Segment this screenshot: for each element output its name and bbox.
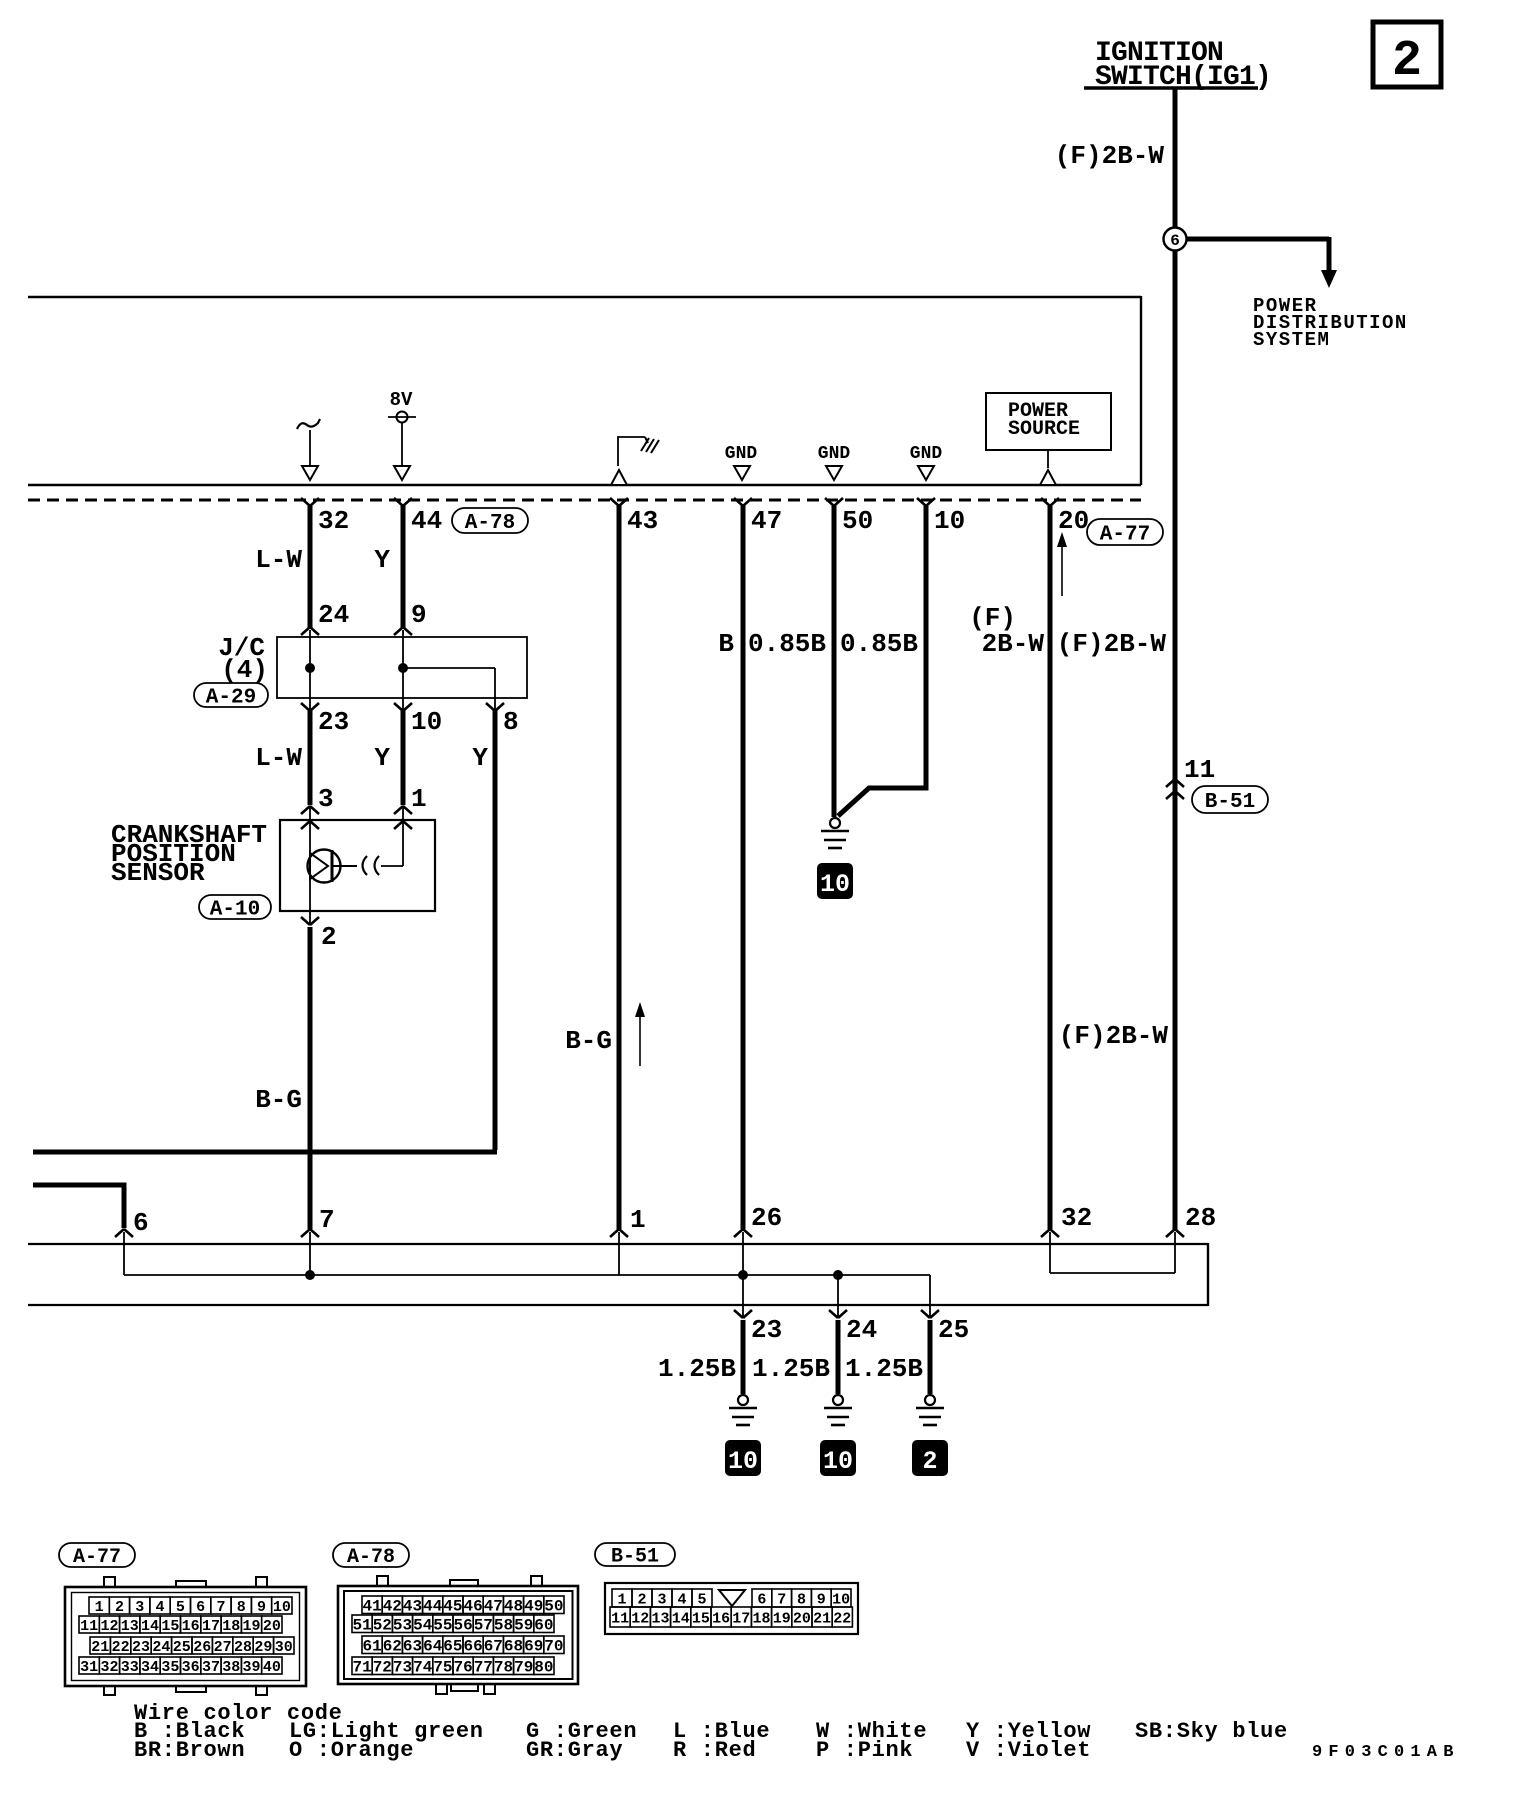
svg-text:30: 30 [275,1639,293,1656]
svg-text:SB:Sky blue: SB:Sky blue [1135,1719,1288,1744]
svg-text:7: 7 [216,1599,225,1616]
ecu connector dashed line [28,499,1141,502]
wire ignition trunk [1173,250,1178,1230]
connector pinout B-51 [595,1543,858,1634]
svg-text:A-78: A-78 [347,1546,395,1569]
svg-text:11: 11 [80,1618,98,1635]
svg-text:35: 35 [161,1659,179,1676]
label B-G mid [565,1026,612,1056]
svg-text:65: 65 [443,1638,462,1656]
svg-text:24: 24 [152,1639,170,1656]
svg-text:B-G: B-G [565,1026,612,1056]
svg-text:63: 63 [403,1638,422,1656]
node 6 circle [1164,228,1187,251]
wire B pin47 trunk [718,504,743,1229]
svg-text:77: 77 [474,1659,493,1677]
svg-text:0.85B: 0.85B [748,629,826,659]
connector pinout A-77 [59,1543,306,1695]
sensor pin3 chevrons [301,784,334,829]
svg-text:5: 5 [697,1591,706,1608]
svg-text:GND: GND [725,444,758,464]
crankshaft position sensor box [280,820,435,911]
svg-text:7: 7 [319,1205,335,1235]
ground symbol 23 [729,1395,757,1425]
svg-text:23: 23 [318,707,349,737]
wire pin8 horizontal to left [33,1150,497,1155]
svg-text:68: 68 [504,1638,523,1656]
svg-text:10: 10 [823,1447,853,1476]
svg-text:GR:Gray: GR:Gray [526,1738,623,1763]
wire to ground 24 [836,1320,841,1394]
wire to ground 23 [741,1320,746,1394]
svg-text:36: 36 [182,1659,200,1676]
wire (F)2B-W pin20 trunk [969,504,1050,1229]
svg-text:1: 1 [95,1599,104,1616]
ground symbol mid [821,818,849,848]
jc internal wire left [305,630,315,698]
svg-text:L-W: L-W [255,545,302,575]
svg-text:(F)2B-W: (F)2B-W [1055,141,1165,171]
svg-text:BR:Brown: BR:Brown [134,1738,245,1763]
wire 0.85B pin10 [838,504,926,816]
wire color code legend [134,1701,1288,1763]
svg-text:2B-W: 2B-W [982,629,1045,659]
strip pin7 [301,1205,335,1280]
wire Y pin8 down [472,709,495,1150]
ground ref 10 b [821,1441,855,1476]
svg-text:60: 60 [534,1617,553,1635]
ecu internal switch symbol pin32 [297,419,320,480]
svg-text:16: 16 [712,1610,730,1627]
svg-text:19: 19 [773,1610,791,1627]
svg-text:5: 5 [176,1599,185,1616]
svg-text:10: 10 [934,506,965,536]
jc pin24 chevron [301,600,349,635]
strip pin25 [921,1305,969,1345]
svg-text:8V: 8V [390,389,413,411]
ignition switch label [1084,38,1271,93]
svg-text:8: 8 [237,1599,246,1616]
svg-text:Y: Y [374,743,390,773]
svg-text:15: 15 [692,1610,710,1627]
ecu GND pin10 [910,444,943,480]
svg-text:16: 16 [182,1618,200,1635]
jc pin23 chevron [301,698,349,737]
wire branch to power distribution [1186,237,1337,288]
svg-text:56: 56 [453,1617,472,1635]
svg-text:A-29: A-29 [206,687,256,710]
ecu internal 8V source pin44 [388,389,416,480]
svg-text:B-51: B-51 [611,1546,659,1569]
svg-text:41: 41 [362,1598,381,1616]
svg-text:51: 51 [352,1617,371,1635]
svg-text:6: 6 [133,1208,149,1238]
svg-text:55: 55 [433,1617,452,1635]
ground ref 10 a [726,1441,760,1476]
wire L-W jc to sensor [255,709,310,805]
svg-text:B: B [718,629,734,659]
svg-text:9: 9 [817,1591,826,1608]
svg-text:43: 43 [627,506,658,536]
label (F)2B-W lower [1059,1021,1169,1051]
svg-text:47: 47 [484,1598,503,1616]
svg-text:24: 24 [318,600,349,630]
svg-text:SYSTEM: SYSTEM [1253,329,1330,351]
wire Y jc to sensor [374,709,403,805]
svg-text:22: 22 [833,1610,851,1627]
ecu pin 44 chevron [394,498,442,536]
svg-text:69: 69 [524,1638,543,1656]
svg-text:GND: GND [818,444,851,464]
svg-text:6: 6 [196,1599,205,1616]
wire into pin6 [33,1185,124,1228]
label (F)2B-W top [1055,141,1165,171]
svg-text:64: 64 [423,1638,443,1656]
svg-text:32: 32 [100,1659,118,1676]
ecu pin 10 chevron [917,498,965,536]
ecu internal chassis ground pin43 [611,437,659,485]
svg-text:34: 34 [141,1659,159,1676]
svg-text:40: 40 [263,1659,281,1676]
svg-text:31: 31 [80,1659,98,1676]
svg-text:61: 61 [362,1638,381,1656]
svg-text:B-G: B-G [255,1085,302,1115]
svg-text:1.25B: 1.25B [752,1354,830,1384]
jc internal wire right [398,630,495,698]
sensor pin1 chevrons [394,784,427,829]
svg-text:2: 2 [321,922,337,952]
sensor pickup coil symbol [308,806,404,911]
svg-text:15: 15 [161,1618,179,1635]
svg-text:1.25B: 1.25B [845,1354,923,1384]
svg-text:26: 26 [193,1639,211,1656]
svg-text:28: 28 [234,1639,252,1656]
svg-text:2: 2 [115,1599,124,1616]
svg-text:17: 17 [732,1610,750,1627]
svg-text:23: 23 [751,1315,782,1345]
svg-text:48: 48 [504,1598,523,1616]
svg-text:R :Red: R :Red [673,1738,756,1763]
svg-text:9F03C01AB: 9F03C01AB [1312,1743,1460,1762]
svg-text:67: 67 [484,1638,503,1656]
page number 2 box [1373,22,1441,90]
strip internal bus [124,1270,930,1304]
svg-text:Y: Y [472,743,488,773]
svg-text:10: 10 [411,707,442,737]
svg-text:76: 76 [453,1659,472,1677]
inline connector B-51 pin11 [1166,755,1268,814]
svg-text:A-10: A-10 [210,899,260,922]
svg-text:9: 9 [257,1599,266,1616]
wire to ground 25 [928,1320,933,1394]
svg-text:3: 3 [657,1591,666,1608]
label power distribution system [1253,295,1408,351]
strip pin26 [734,1203,782,1304]
svg-text:72: 72 [373,1659,392,1677]
jc pin10 chevron [394,698,442,737]
svg-text:46: 46 [463,1598,482,1616]
svg-text:22: 22 [112,1639,130,1656]
wire 0.85B pin50 [748,504,834,817]
svg-text:71: 71 [352,1659,371,1677]
svg-text:74: 74 [413,1659,433,1677]
svg-text:58: 58 [494,1617,513,1635]
svg-text:28: 28 [1185,1203,1216,1233]
svg-text:59: 59 [514,1617,533,1635]
svg-text:1: 1 [630,1205,646,1235]
ecu pin 47 chevron [734,498,782,536]
svg-text:10: 10 [273,1599,291,1616]
svg-text:3: 3 [318,784,334,814]
strip link 32-28 [1050,1272,1175,1274]
strip pin1 [610,1205,646,1275]
svg-text:10: 10 [832,1591,850,1608]
svg-text:75: 75 [433,1659,452,1677]
svg-text:20: 20 [1058,506,1089,536]
strip pin24 [829,1305,877,1345]
connector ref A-29 [194,683,268,710]
svg-text:53: 53 [393,1617,412,1635]
svg-text:1: 1 [411,784,427,814]
svg-text:44: 44 [423,1598,443,1616]
sensor pin2 chevron [301,911,337,952]
svg-text:79: 79 [514,1659,533,1677]
connector ref A-78 [452,508,528,535]
svg-text:Y: Y [374,545,390,575]
svg-text:18: 18 [222,1618,240,1635]
svg-text:A-78: A-78 [465,512,515,535]
svg-text:25: 25 [938,1315,969,1345]
svg-text:73: 73 [393,1659,412,1677]
svg-text:54: 54 [413,1617,433,1635]
svg-text:26: 26 [751,1203,782,1233]
ground ref 2 [913,1441,947,1476]
svg-text:32: 32 [1061,1203,1092,1233]
junction connector J/C box [218,633,527,698]
svg-text:10: 10 [820,870,850,899]
svg-text:39: 39 [243,1659,261,1676]
strip pin23 [734,1305,782,1345]
drawing number [1312,1743,1460,1762]
arrow up near B-G [635,1002,645,1066]
svg-text:(4): (4) [221,655,268,685]
svg-text:66: 66 [463,1638,482,1656]
svg-text:3: 3 [135,1599,144,1616]
svg-text:13: 13 [651,1610,669,1627]
svg-text:SENSOR: SENSOR [111,858,205,888]
svg-text:12: 12 [100,1618,118,1635]
svg-text:4: 4 [677,1591,686,1608]
svg-text:2: 2 [1392,33,1422,90]
strip pin32 [1041,1203,1092,1273]
wire Y pin44 to J/C [374,504,403,629]
svg-text:42: 42 [383,1598,402,1616]
svg-text:8: 8 [797,1591,806,1608]
svg-text:1: 1 [617,1591,626,1608]
connector pinout A-78 [333,1543,578,1694]
svg-text:49: 49 [524,1598,543,1616]
svg-text:78: 78 [494,1659,513,1677]
svg-text:47: 47 [751,506,782,536]
svg-text:2: 2 [637,1591,646,1608]
ground symbol 25 [916,1395,944,1425]
svg-text:29: 29 [254,1639,272,1656]
jc pin9 chevron [394,600,427,635]
svg-text:8: 8 [503,707,519,737]
ground ref 10 mid [818,864,852,899]
svg-text:70: 70 [544,1638,563,1656]
ecu pin 32 chevron [301,498,349,536]
svg-text:V :Violet: V :Violet [966,1738,1091,1763]
ecu GND pin47 [725,444,758,480]
svg-text:33: 33 [121,1659,139,1676]
label 1.25B x3 [658,1354,923,1384]
wire B-G sensor down [255,927,310,1229]
svg-text:L-W: L-W [255,743,302,773]
ecu pin 50 chevron [825,498,873,536]
bottom component box [28,1243,1208,1306]
svg-text:O :Orange: O :Orange [289,1738,414,1763]
jc pin8 chevron [486,698,519,737]
svg-text:57: 57 [474,1617,493,1635]
svg-text:(F)2B-W: (F)2B-W [1057,629,1167,659]
svg-text:11: 11 [1184,755,1215,785]
svg-text:44: 44 [411,506,442,536]
svg-text:6: 6 [757,1591,766,1608]
svg-text:0.85B: 0.85B [840,629,918,659]
svg-text:14: 14 [672,1610,690,1627]
svg-text:9: 9 [411,600,427,630]
svg-text:18: 18 [752,1610,770,1627]
svg-text:GND: GND [910,444,943,464]
svg-text:25: 25 [173,1639,191,1656]
svg-text:12: 12 [631,1610,649,1627]
crankshaft position sensor label [111,820,267,888]
svg-text:24: 24 [846,1315,877,1345]
svg-text:17: 17 [202,1618,220,1635]
svg-text:4: 4 [156,1599,165,1616]
ecu GND pin50 [818,444,851,480]
svg-text:2: 2 [922,1447,937,1476]
connector ref A-77 [1087,519,1163,547]
svg-text:19: 19 [243,1618,261,1635]
arrow up near pin20 [1057,532,1067,596]
connector ref A-10 [199,895,271,922]
svg-text:32: 32 [318,506,349,536]
svg-text:43: 43 [403,1598,422,1616]
svg-text:1.25B: 1.25B [658,1354,736,1384]
wire B-G pin43 trunk [617,504,622,1229]
svg-text:P :Pink: P :Pink [816,1738,913,1763]
svg-text:52: 52 [373,1617,392,1635]
label (F)2B-W right [1057,629,1167,659]
svg-text:37: 37 [202,1659,220,1676]
svg-text:20: 20 [793,1610,811,1627]
svg-text:B-51: B-51 [1205,791,1255,814]
ground symbol 24 [824,1395,852,1425]
wire (F)2B-W from ignition switch [1173,88,1178,228]
svg-text:13: 13 [121,1618,139,1635]
svg-text:A-77: A-77 [1100,524,1150,547]
svg-text:50: 50 [842,506,873,536]
wire L-W pin32 to J/C [255,504,310,629]
svg-text:80: 80 [534,1659,553,1677]
svg-text:27: 27 [214,1639,232,1656]
ecu pin 43 chevron [610,498,658,536]
engine control module box [28,296,1141,485]
svg-text:(F)2B-W: (F)2B-W [1059,1021,1169,1051]
svg-text:20: 20 [263,1618,281,1635]
svg-text:11: 11 [611,1610,629,1627]
svg-text:6: 6 [1170,232,1180,250]
ecu pin 20 chevron [1041,498,1089,536]
svg-text:A-77: A-77 [73,1546,121,1569]
strip pin28 [1166,1203,1216,1273]
svg-text:21: 21 [91,1639,109,1656]
svg-text:SOURCE: SOURCE [1008,418,1080,441]
svg-text:14: 14 [141,1618,159,1635]
power source box [986,393,1111,485]
strip pin6 [115,1208,149,1275]
svg-text:7: 7 [777,1591,786,1608]
svg-text:23: 23 [132,1639,150,1656]
svg-text:50: 50 [544,1598,563,1616]
svg-text:45: 45 [443,1598,462,1616]
svg-text:21: 21 [813,1610,831,1627]
svg-text:62: 62 [383,1638,402,1656]
svg-text:10: 10 [728,1447,758,1476]
svg-text:38: 38 [222,1659,240,1676]
